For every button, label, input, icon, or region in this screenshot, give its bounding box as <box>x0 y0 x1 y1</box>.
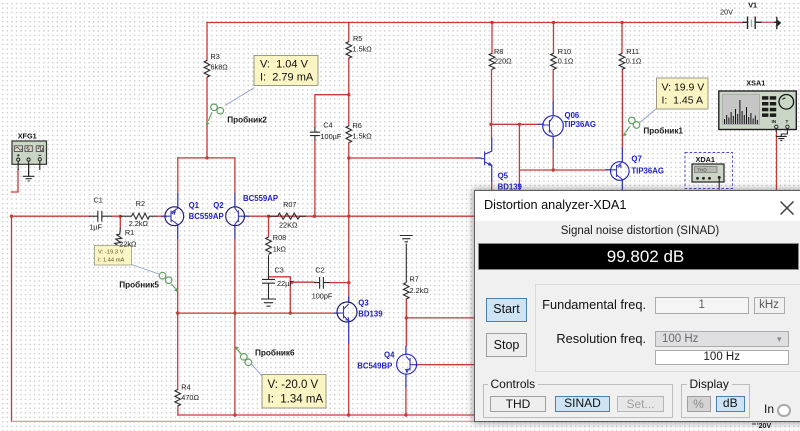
svg-text:IN: IN <box>772 119 777 124</box>
svg-text:Пробник6: Пробник6 <box>255 348 295 358</box>
svg-text:V: -20.0 V: V: -20.0 V <box>268 379 319 391</box>
svg-text:R6: R6 <box>353 121 362 130</box>
svg-text:C4: C4 <box>323 121 332 130</box>
svg-text:Q2: Q2 <box>213 201 224 210</box>
svg-text:Q5: Q5 <box>498 172 509 181</box>
svg-text:Q7: Q7 <box>631 155 641 164</box>
svg-text:Q06: Q06 <box>565 111 580 120</box>
svg-text:BD139: BD139 <box>358 310 383 319</box>
svg-text:R5: R5 <box>353 34 362 43</box>
svg-text:Пробник1: Пробник1 <box>643 126 683 136</box>
svg-text:V: -19.3 V: V: -19.3 V <box>98 250 124 256</box>
svg-text:22KΩ: 22KΩ <box>279 221 298 230</box>
svg-text:1.5kΩ: 1.5kΩ <box>353 44 373 53</box>
svg-text:6k8Ω: 6k8Ω <box>211 63 229 72</box>
svg-text:I: 1.45 A: I: 1.45 A <box>662 95 703 107</box>
svg-text:0.1Ω: 0.1Ω <box>558 57 574 66</box>
svg-text:R3: R3 <box>211 52 220 61</box>
svg-text:R7: R7 <box>410 275 419 284</box>
svg-text:R10: R10 <box>558 47 571 56</box>
svg-text:Пробник2: Пробник2 <box>227 115 267 125</box>
svg-text:Q3: Q3 <box>358 299 369 308</box>
svg-text:R2: R2 <box>136 199 145 208</box>
svg-text:Q1: Q1 <box>189 201 200 210</box>
svg-text:100µF: 100µF <box>321 132 342 141</box>
svg-text:'20V: '20V <box>757 423 771 430</box>
svg-text:XSA1: XSA1 <box>746 79 765 88</box>
svg-text:R08: R08 <box>273 233 286 242</box>
svg-text:V: 19.9 V: V: 19.9 V <box>662 82 705 94</box>
svg-text:Q4: Q4 <box>384 351 395 360</box>
svg-text:TIP36AG: TIP36AG <box>564 120 597 129</box>
svg-text:R8: R8 <box>494 47 503 56</box>
svg-text:R11: R11 <box>626 47 639 56</box>
svg-text:C2: C2 <box>315 266 324 275</box>
svg-text:100pF: 100pF <box>312 292 333 301</box>
svg-text:22µF: 22µF <box>277 279 294 288</box>
svg-text:R1: R1 <box>125 228 134 237</box>
svg-text:R07: R07 <box>283 200 296 209</box>
svg-text:C3: C3 <box>275 266 284 275</box>
svg-text:XFG1: XFG1 <box>18 132 37 141</box>
svg-text:1µF: 1µF <box>89 223 102 232</box>
svg-text:THD: THD <box>697 168 707 174</box>
svg-text:1.5kΩ: 1.5kΩ <box>353 131 373 140</box>
svg-text:220Ω: 220Ω <box>494 57 512 66</box>
svg-text:BC549BP: BC549BP <box>357 362 392 371</box>
svg-text:C1: C1 <box>94 195 103 204</box>
svg-text:BC559AP: BC559AP <box>189 212 224 221</box>
svg-text:BC559AP: BC559AP <box>243 194 278 203</box>
svg-text:T: T <box>786 119 789 124</box>
svg-text:I: 2.79 mA: I: 2.79 mA <box>260 72 314 84</box>
svg-text:0.1Ω: 0.1Ω <box>626 57 642 66</box>
svg-text:20V: 20V <box>720 8 733 17</box>
svg-text:I: 1.44 mA: I: 1.44 mA <box>98 258 125 264</box>
svg-text:R4: R4 <box>181 383 190 392</box>
svg-text:22kΩ: 22kΩ <box>119 240 137 249</box>
svg-text:V1: V1 <box>748 1 757 10</box>
svg-text:I: 1.34 mA: I: 1.34 mA <box>268 394 324 406</box>
svg-text:V: 1.04 V: V: 1.04 V <box>260 59 309 71</box>
svg-text:2.2kΩ: 2.2kΩ <box>129 219 149 228</box>
svg-text:1kΩ: 1kΩ <box>273 245 287 254</box>
svg-text:XDA1: XDA1 <box>696 155 715 164</box>
svg-text:470Ω: 470Ω <box>181 393 199 402</box>
svg-text:Пробник5: Пробник5 <box>119 280 159 290</box>
svg-text:TIP36AG: TIP36AG <box>631 167 664 176</box>
svg-text:2.2kΩ: 2.2kΩ <box>410 286 430 295</box>
